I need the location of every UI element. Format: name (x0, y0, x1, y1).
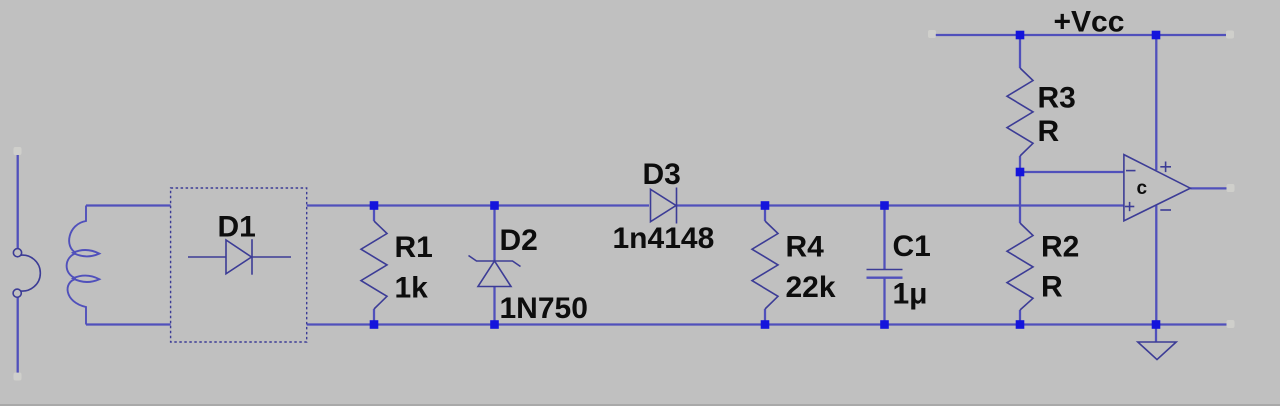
svg-text:22k: 22k (786, 271, 836, 304)
svg-text:R1: R1 (395, 231, 433, 264)
svg-text:R: R (1041, 271, 1063, 304)
svg-text:1k: 1k (395, 272, 429, 305)
svg-text:C1: C1 (893, 230, 931, 263)
svg-text:1N750: 1N750 (500, 292, 588, 325)
svg-text:D1: D1 (218, 211, 256, 244)
svg-text:+Vcc: +Vcc (1054, 6, 1125, 39)
svg-text:c: c (1137, 178, 1148, 199)
svg-text:D2: D2 (500, 224, 538, 257)
svg-text:R4: R4 (786, 231, 825, 264)
svg-text:1μ: 1μ (893, 278, 928, 311)
svg-text:R2: R2 (1041, 231, 1079, 264)
svg-text:R3: R3 (1038, 82, 1076, 115)
svg-text:D3: D3 (643, 158, 681, 191)
svg-text:R: R (1038, 115, 1060, 148)
svg-text:1n4148: 1n4148 (613, 222, 715, 255)
